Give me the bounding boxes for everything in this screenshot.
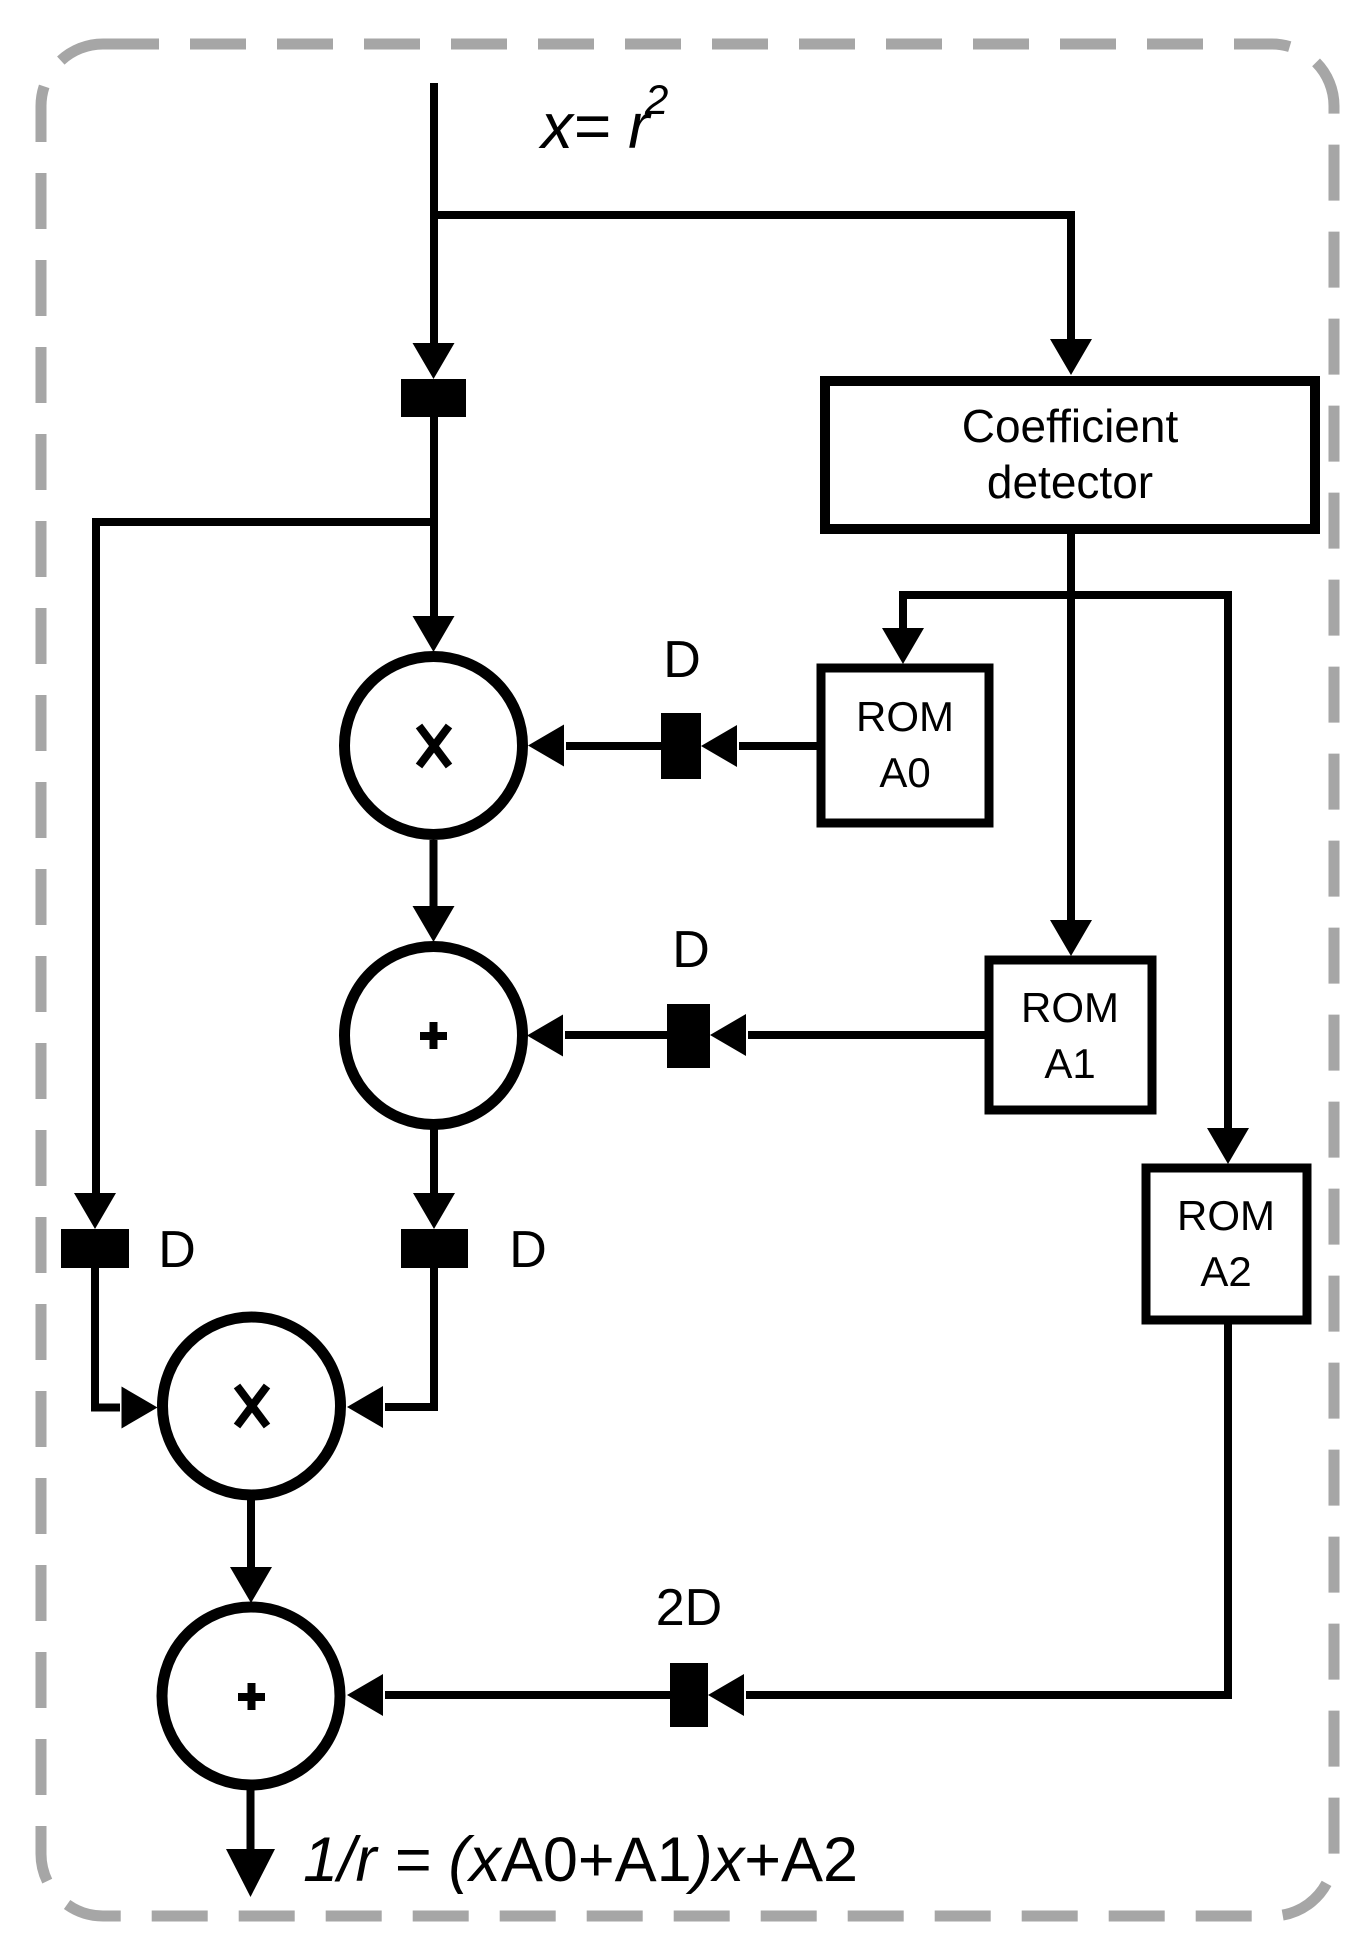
arrowhead into P2 right: [347, 1674, 383, 1716]
wire: S6 to adder P2: [385, 1691, 670, 1699]
delay register S1: [401, 379, 466, 417]
wire: left feedback branch: [96, 522, 434, 1196]
arrowhead into ROM A2: [1207, 1128, 1249, 1164]
arrowhead into delay S2: [701, 725, 737, 767]
svg-text:A2: A2: [1200, 1248, 1251, 1295]
svg-text:detector: detector: [987, 456, 1153, 508]
svg-text:D: D: [672, 921, 710, 979]
svg-text:ROM: ROM: [1021, 984, 1119, 1031]
wire: S1 down to multiplier X1: [430, 417, 438, 622]
arrowhead into delay S6: [708, 1674, 744, 1716]
wire: S5 down and left into multiplier X2: [385, 1268, 434, 1407]
wire: main input vertical from top: [430, 83, 438, 352]
arrowhead into ROM A0: [882, 628, 924, 664]
delay register S5: [401, 1229, 468, 1268]
delay register S3: [667, 1004, 710, 1068]
wire: top horizontal branch to coefficient detector: [434, 215, 1071, 342]
svg-text:D: D: [663, 631, 701, 689]
svg-text:A1: A1: [1044, 1040, 1095, 1087]
svg-text:ROM: ROM: [856, 693, 954, 740]
wire: X1 down to adder P1: [430, 840, 438, 912]
svg-text:ROM: ROM: [1177, 1192, 1275, 1239]
arrowhead into multiplier X1: [413, 616, 455, 652]
svg-text:2: 2: [644, 76, 668, 123]
wire: adder P1 down to delay S5: [430, 1124, 438, 1199]
wire: branch horizontal to ROM A0 and ROM A2: [903, 595, 1228, 1130]
wire: ROM A1 to delay S3: [748, 1031, 985, 1039]
coefficient detector box U1: [825, 381, 1315, 529]
ROM A0 box: [821, 668, 989, 823]
multiplier X2 circle: [163, 1317, 341, 1495]
svg-text:2D: 2D: [656, 1579, 722, 1637]
delay register S6: [670, 1663, 708, 1727]
svg-text:x= r: x= r: [538, 90, 652, 162]
arrowhead into P1 right: [527, 1015, 563, 1057]
wire: ROM A2 down and left to delay S6: [746, 1320, 1228, 1695]
multiplier X1 circle: [345, 657, 523, 835]
wire: ROM A0 to delay S2: [739, 742, 817, 750]
ROM A2 box: [1146, 1168, 1307, 1320]
multiplier X2 x glyph: [237, 1386, 267, 1426]
delay register S4: [61, 1229, 129, 1268]
arrowhead into delay S5: [413, 1193, 455, 1229]
arrowhead into X2 right: [347, 1386, 383, 1428]
svg-text:D: D: [158, 1221, 196, 1279]
adder P2 circle: [162, 1607, 340, 1785]
arrowhead into X2 left: [122, 1387, 158, 1429]
svg-text:A0: A0: [879, 749, 930, 796]
adder P2 plus glyph: [238, 1683, 265, 1710]
arrowhead into delay S3: [710, 1014, 746, 1056]
wire: output from adder P2: [247, 1785, 255, 1851]
arrowhead into adder P1: [413, 906, 455, 942]
arrowhead into delay S4: [74, 1193, 116, 1229]
arrowhead into adder P2: [230, 1567, 272, 1603]
arrowhead into coefficient detector: [1050, 339, 1092, 375]
wire: coefficient detector down to ROM A1: [1067, 529, 1075, 922]
arrowhead into delay S1: [413, 343, 455, 379]
wire: S3 to adder P1: [565, 1031, 667, 1039]
arrowhead into X1 right: [528, 725, 564, 767]
node input label x=r^2: [538, 76, 668, 162]
arrowhead into ROM A1: [1050, 920, 1092, 956]
adder P1 circle: [345, 947, 523, 1125]
adder P1 plus glyph: [420, 1022, 447, 1049]
arrowhead output: [226, 1849, 275, 1897]
svg-text:D: D: [509, 1221, 547, 1279]
svg-text:Coefficient: Coefficient: [962, 400, 1179, 452]
wire: X2 down to adder P2: [247, 1500, 255, 1569]
wire: S2 to multiplier X1: [566, 742, 661, 750]
delay register S2: [661, 713, 701, 779]
svg-text:1/r = (xA0+A1)x+A2: 1/r = (xA0+A1)x+A2: [303, 1825, 858, 1895]
multiplier X1 x glyph: [419, 726, 449, 766]
ROM A1 box: [989, 960, 1152, 1110]
wire: S4 down and right into multiplier X2: [95, 1268, 120, 1408]
